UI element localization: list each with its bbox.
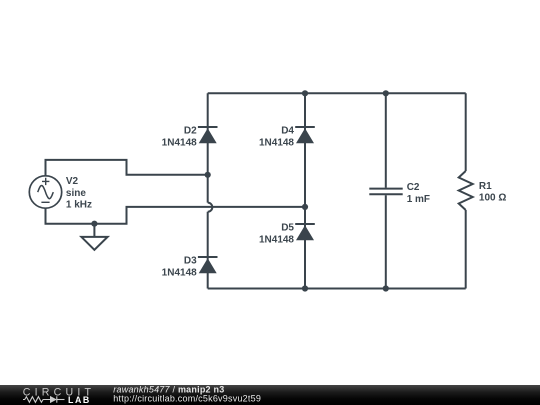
svg-text:R1: R1 — [479, 181, 492, 192]
wire resistor column upper — [465, 93, 467, 171]
wire resistor column lower — [465, 210, 467, 289]
node junction dot bottom C — [383, 285, 389, 291]
voltage source V2 — [29, 176, 61, 208]
node junction dot right bridge mid — [302, 204, 308, 210]
svg-text:1N4148: 1N4148 — [162, 137, 197, 148]
node junction dot bottom B — [302, 285, 308, 291]
wire left bridge column upper — [207, 93, 209, 202]
wire V2 top loop — [46, 160, 208, 176]
svg-text:100 Ω: 100 Ω — [479, 193, 506, 204]
svg-text:V2: V2 — [66, 176, 79, 187]
svg-text:1 mF: 1 mF — [407, 194, 430, 205]
wire hop over middle wire — [208, 203, 213, 212]
diode D2 — [198, 127, 218, 143]
diode D5 — [295, 224, 315, 240]
diode D3 — [198, 257, 218, 273]
label C2 1 mF — [407, 182, 430, 205]
capacitor C2 — [369, 189, 402, 195]
wire capacitor column upper — [385, 93, 387, 187]
svg-text:LAB: LAB — [68, 395, 91, 405]
wire bottom rail — [208, 288, 466, 290]
wire capacitor column lower — [385, 195, 387, 288]
label R1 100 ohm — [479, 181, 506, 204]
node junction dot left bridge mid — [205, 172, 211, 178]
node junction dot top C — [383, 90, 389, 96]
svg-text:1 kHz: 1 kHz — [66, 200, 92, 211]
svg-text:1N4148: 1N4148 — [259, 234, 294, 245]
svg-text:1N4148: 1N4148 — [259, 137, 294, 148]
svg-text:D3: D3 — [184, 256, 197, 267]
CircuitLab logo zigzag and diode — [23, 396, 65, 402]
svg-text:http://circuitlab.com/c5k6v9sv: http://circuitlab.com/c5k6v9svu2t59 — [113, 394, 261, 404]
svg-text:1N4148: 1N4148 — [162, 267, 197, 278]
label D5 1N4148 — [259, 223, 294, 246]
wire top rail — [208, 92, 466, 94]
ground — [81, 224, 107, 250]
svg-text:D4: D4 — [281, 126, 294, 137]
label D4 1N4148 — [259, 126, 294, 149]
label D3 1N4148 — [162, 256, 197, 279]
svg-text:sine: sine — [66, 188, 86, 199]
resistor R1 — [459, 171, 473, 210]
node junction dot top B — [302, 90, 308, 96]
wire V2 bottom loop — [46, 207, 306, 224]
node junction dot ground — [91, 221, 97, 227]
label V2 sine 1 kHz — [66, 176, 92, 211]
svg-text:D5: D5 — [281, 223, 294, 234]
svg-text:C2: C2 — [407, 182, 420, 193]
diode D4 — [295, 127, 315, 143]
wire left bridge column lower — [207, 212, 209, 289]
svg-text:D2: D2 — [184, 126, 197, 137]
wire right bridge column — [304, 93, 306, 288]
label D2 1N4148 — [162, 126, 197, 149]
